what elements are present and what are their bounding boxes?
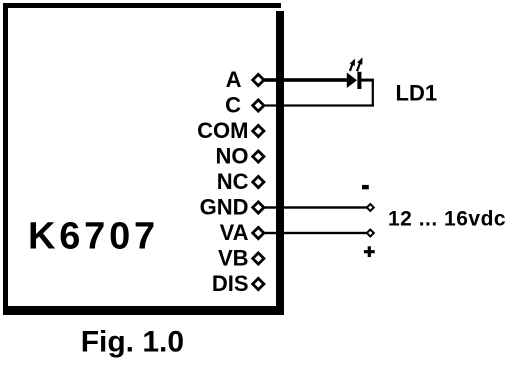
label K6707 <box>28 216 159 258</box>
wire VA to supply plus terminal <box>264 232 367 234</box>
label minus sign <box>362 185 369 189</box>
pin COM <box>197 118 264 143</box>
caption Fig. 1.0 <box>81 326 184 359</box>
module K6707 outline box <box>3 3 284 315</box>
svg-text:Fig. 1.0: Fig. 1.0 <box>81 326 184 359</box>
LED LD1 cathode bar <box>357 72 361 89</box>
LED light emission arrow 2 <box>357 57 363 71</box>
pin NO <box>216 144 264 169</box>
label 12 ... 16vdc <box>388 208 506 231</box>
wire LED loop bottom to pin C <box>264 104 374 106</box>
wire LED loop right vertical <box>372 79 374 107</box>
svg-text:DIS: DIS <box>212 271 249 296</box>
svg-text:GND: GND <box>200 195 249 220</box>
svg-text:K6707: K6707 <box>28 216 159 258</box>
wire A to LED anode <box>264 78 348 82</box>
pin C <box>225 93 264 118</box>
pin A <box>226 67 264 92</box>
svg-text:VA: VA <box>220 220 249 245</box>
label LD1 <box>396 81 438 106</box>
LED light emission arrow 1 <box>350 59 355 71</box>
pin DIS <box>212 271 264 296</box>
svg-text:VB: VB <box>218 246 249 271</box>
svg-text:12 ... 16vdc: 12 ... 16vdc <box>388 208 506 231</box>
LED LD1 diode triangle <box>347 73 357 89</box>
svg-text:C: C <box>225 93 241 118</box>
svg-text:NO: NO <box>216 144 249 169</box>
svg-text:LD1: LD1 <box>396 81 438 106</box>
svg-text:A: A <box>226 67 242 92</box>
wire LED cathode stub <box>361 79 374 82</box>
label plus sign <box>364 246 375 257</box>
svg-text:COM: COM <box>197 118 248 143</box>
terminal diamond minus <box>367 204 374 211</box>
pin NC <box>217 169 264 194</box>
svg-text:NC: NC <box>217 169 249 194</box>
pin VA <box>220 220 264 245</box>
wire GND to supply minus terminal <box>264 206 367 208</box>
pin VB <box>218 246 264 271</box>
pin GND <box>200 195 264 220</box>
terminal diamond plus <box>367 230 374 237</box>
